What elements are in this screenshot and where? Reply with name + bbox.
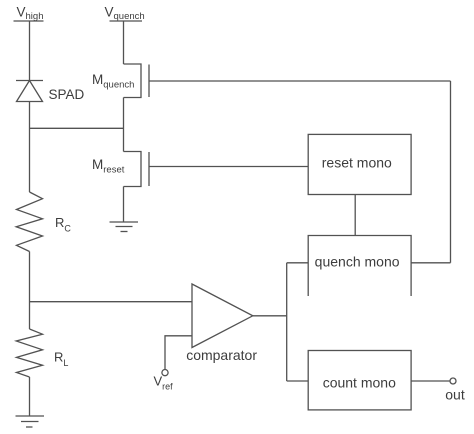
svg-text:Vquench: Vquench (105, 5, 145, 23)
wire R_C to node B (29, 252, 31, 330)
svg-text:reset mono: reset mono (322, 155, 392, 171)
label M_reset (92, 157, 125, 176)
label quench mono (315, 254, 400, 270)
svg-text:quench mono: quench mono (315, 254, 400, 270)
wire M_quench source to node A / M_reset drain (123, 98, 125, 152)
block reset mono (308, 134, 411, 194)
V_quench terminal bar (110, 20, 143, 22)
wire branch to quench mono (287, 262, 309, 264)
wire V_high to SPAD cathode (29, 21, 31, 81)
svg-text:out: out (445, 387, 465, 403)
svg-text:Vhigh: Vhigh (17, 5, 44, 23)
wire output branch vertical (286, 263, 288, 381)
label M_quench (92, 72, 134, 91)
wire M_quench gate to right bus (149, 80, 451, 82)
wire quench mono to gate bus (411, 262, 450, 264)
label count mono (323, 375, 396, 391)
block count mono (308, 351, 411, 410)
wire comparator output (253, 315, 287, 317)
wire count mono to out (411, 380, 450, 382)
terminal V_ref (162, 370, 168, 376)
resistor R_L (16, 329, 42, 377)
svg-text:RC: RC (55, 215, 71, 234)
label comparator (186, 347, 257, 363)
svg-text:RL: RL (54, 350, 68, 369)
wire branch to count mono (287, 380, 309, 382)
supply terminal V_quench (105, 5, 145, 23)
V_high terminal bar (14, 20, 44, 22)
svg-text:Vref: Vref (154, 374, 174, 392)
op-amp comparator (192, 284, 253, 348)
ground (R_L) (16, 416, 45, 427)
wire node B to comparator input (30, 301, 193, 303)
wire SPAD anode to node A (29, 102, 31, 193)
label out (445, 387, 465, 403)
label V_ref (154, 374, 174, 392)
transistor M_reset (124, 152, 150, 187)
SPAD diode (16, 81, 43, 102)
wire gate bus vertical (450, 81, 452, 263)
svg-text:Mreset: Mreset (92, 157, 125, 176)
block quench mono (open bottom) (308, 236, 411, 297)
wire V_quench to M_quench drain (123, 21, 125, 64)
wire R_L to ground (29, 377, 31, 416)
wire M_reset source to ground (123, 187, 125, 223)
transistor M_quench (124, 64, 150, 98)
svg-text:count mono: count mono (323, 375, 396, 391)
wire node A horizontal (30, 127, 124, 129)
wire M_reset gate to reset mono (149, 166, 308, 168)
label reset mono (322, 155, 392, 171)
resistor R_C (16, 192, 42, 252)
supply terminal V_high (17, 5, 44, 23)
label R_C (55, 215, 71, 234)
label R_L (54, 350, 68, 369)
ground (M_reset) (110, 222, 139, 232)
svg-text:Mquench: Mquench (92, 72, 134, 91)
svg-text:comparator: comparator (186, 347, 257, 363)
svg-text:SPAD: SPAD (49, 87, 85, 102)
label SPAD (49, 87, 85, 102)
wire V_ref to comparator input (165, 336, 192, 370)
wire reset mono to quench mono (354, 195, 356, 236)
terminal out (450, 378, 456, 384)
